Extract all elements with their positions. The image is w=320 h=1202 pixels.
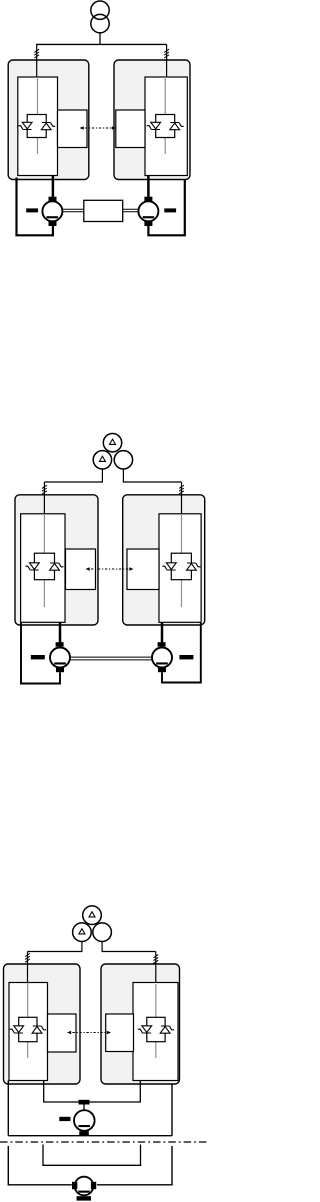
armature loop left [17,178,53,236]
right riser d3 [171,1084,173,1136]
valve feeder wire upper [37,77,39,115]
valve branch box [27,115,46,138]
valve feeder wire lower [155,1042,157,1058]
thyristor bar and gate [42,123,55,127]
thyristor triangle [187,564,197,571]
armature loop left d2 [21,623,60,684]
thyristor triangle [14,1026,24,1033]
bulkhead dash-dot line [0,1141,208,1143]
control box right d2 [127,549,159,590]
valve branch box [171,553,191,580]
valve group left d2 [25,514,63,607]
reactor right d2 [179,482,184,515]
armature loop right [148,180,184,235]
thyristor triangle [160,1027,170,1034]
control box left d3 [48,1014,77,1052]
valve feeder wire lower [164,138,166,155]
field bar M5 [59,1117,70,1121]
reactor right d3 [153,952,158,984]
thyristor bar and gate [50,563,63,567]
coupling box [84,200,123,221]
control box left d2 [66,549,96,590]
ac bus diagram1 [36,43,166,45]
thyristor triangle [30,563,40,570]
valve feeder wire lower [181,580,183,607]
shaft right [123,209,139,212]
thyristor triangle [50,564,60,571]
valve feeder wire upper [181,514,183,553]
outer loop left below bulkhead [8,1146,72,1185]
cubicle right (gray enclosure) [114,60,190,180]
cubicle left d2 [15,495,98,625]
converter unit right (white rect) [145,77,187,176]
field bar M1 [26,208,38,212]
thyristor triangle [22,122,32,129]
outer loop right below bulkhead [97,1146,172,1185]
valve feeder wire lower [37,138,39,155]
thyristor triangle [32,1027,42,1034]
valve feeder wire upper [155,984,157,1017]
thyristor triangle [166,563,176,570]
valve group right d3 [138,984,174,1058]
dc bus d3 [44,1081,141,1103]
thyristor triangle [151,122,161,129]
field bar M4 [179,655,193,659]
converter unit right d3 [133,983,178,1081]
valve branch box [156,115,175,138]
transformer T1 [91,1,109,44]
dc motor M3 [50,642,70,672]
valve feeder wire upper [27,983,29,1018]
dc motor M4 [152,642,172,672]
transformer T3 (three winding) [73,906,112,942]
thyristor bar and gate [18,126,31,130]
converter unit left d2 [21,514,65,623]
ac leads diagram2 [44,469,181,482]
thyristor bar and gate [161,1026,174,1030]
left riser d3 [7,1081,9,1136]
converter unit right d2 [159,514,201,623]
reactor right (line with coil) [164,44,169,78]
control link dotted arrow d2 [86,567,134,571]
control box right d3 [106,1014,134,1052]
valve branch box [147,1017,165,1041]
ac leads diagram3 [28,942,156,952]
control box right [116,110,145,148]
control box left [58,110,88,148]
valve feeder wire lower [43,580,45,607]
thyristor bar and gate [10,1029,23,1033]
cubicle right d3 [101,964,180,1084]
armature loop right d2 [162,623,201,683]
shaft d2 [70,657,152,660]
valve feeder wire upper [164,77,166,115]
field bar M3 [31,655,45,659]
shaft left [62,209,83,212]
thyristor bar and gate [25,566,38,570]
dc feed right d2 [161,622,164,643]
valve branch box [34,553,54,580]
valve group left: feeder, branch box, antiparallel thyristors [18,77,55,154]
thyristor triangle [170,123,180,130]
field bar M2 [164,208,176,212]
thyristor bar and gate [33,1026,46,1030]
dc motor M5 [74,1100,95,1136]
cubicle right d2 [123,495,205,625]
valve feeder wire upper [43,514,45,553]
dc motor M2 [138,197,158,226]
propulsion motor M6 [72,1177,96,1196]
thyristor bar and gate [187,563,200,567]
valve group right d2 [162,514,200,607]
control link dotted arrow [80,126,117,130]
valve group left d3 [10,983,46,1059]
cubicle left (gray enclosure) [8,60,89,180]
dc feed left d2 [59,622,62,643]
cubicle left d3 [4,964,81,1084]
thyristor triangle [41,123,51,130]
reactor left d3 [25,952,30,984]
thyristor bar and gate [162,566,175,570]
valve feeder wire lower [27,1042,29,1058]
return bus d3 [8,1135,172,1137]
transformer T2 (three winding) [93,434,132,469]
control link dotted arrow d3 [67,1031,111,1035]
reactor left d2 [42,482,47,515]
field bar M6 [77,1196,91,1200]
dc feed right (thick) [147,176,150,198]
valve branch box [19,1017,37,1041]
converter unit left (white rect) [18,77,58,176]
reactor left (line with coil) [34,44,39,78]
thyristor bar and gate [138,1029,151,1033]
thyristor triangle [142,1026,152,1033]
converter unit left d3 [9,983,48,1081]
valve group right [147,77,184,154]
dc motor M1 [42,197,62,226]
dc motor M5 feed [83,1102,85,1111]
thyristor bar and gate [170,123,183,127]
thyristor bar and gate [147,126,160,130]
dc feed left (thick) [52,176,55,198]
inner loop below bulkhead [43,1145,141,1166]
